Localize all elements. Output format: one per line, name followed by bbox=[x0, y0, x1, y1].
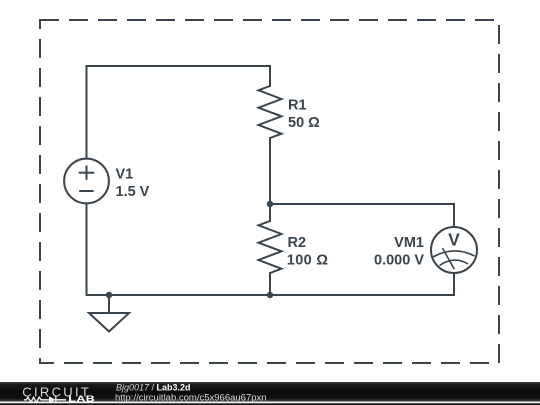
label R2 bbox=[287, 235, 329, 269]
resistor R1 bbox=[259, 86, 282, 138]
svg-text:LAB: LAB bbox=[68, 395, 95, 404]
logo diode triangle bbox=[49, 396, 56, 403]
dashed selection border bbox=[40, 20, 499, 363]
wire mid horizontal bbox=[270, 203, 454, 205]
footer white separator bbox=[0, 402, 540, 404]
wire R1 bottom lead bbox=[269, 138, 271, 204]
resistor R2 bbox=[259, 221, 282, 273]
logo resistor-diode line bbox=[24, 396, 66, 403]
svg-text:Bjg0017 / Lab3.2d: Bjg0017 / Lab3.2d bbox=[116, 383, 191, 393]
node junction dot R2 bottom bbox=[267, 292, 273, 298]
wire R2 top lead bbox=[269, 204, 271, 221]
svg-text:50 Ω: 50 Ω bbox=[288, 115, 320, 131]
logo CIRCUIT text bbox=[22, 384, 91, 399]
wire ground stub bbox=[108, 295, 110, 313]
svg-text:100 Ω: 100 Ω bbox=[287, 253, 329, 269]
svg-text:R1: R1 bbox=[288, 97, 307, 113]
svg-text:R2: R2 bbox=[288, 235, 307, 251]
voltage source V1 bbox=[64, 159, 109, 204]
node junction dot ground bbox=[106, 292, 112, 298]
wire V1 top lead bbox=[86, 66, 88, 159]
label VM1 bbox=[374, 235, 424, 269]
footer title line bbox=[116, 383, 191, 393]
wire V1 bottom lead bbox=[86, 204, 88, 296]
label V1 bbox=[116, 167, 150, 201]
wire bottom horizontal bbox=[87, 294, 455, 296]
svg-text:0.000 V: 0.000 V bbox=[374, 253, 424, 269]
svg-text:V: V bbox=[448, 229, 460, 249]
ground bbox=[89, 313, 129, 332]
svg-text:V1: V1 bbox=[116, 167, 134, 183]
wire R2 bottom lead bbox=[269, 273, 271, 295]
svg-text:VM1: VM1 bbox=[394, 235, 424, 251]
node junction dot R1/R2/VM1 bbox=[267, 201, 273, 207]
wire top horizontal bbox=[87, 65, 271, 67]
voltmeter VM1 bbox=[431, 227, 477, 273]
wire VM1 top lead bbox=[453, 204, 455, 228]
footer bottom edge bbox=[0, 403, 540, 405]
wire R1 top lead bbox=[269, 66, 271, 86]
logo LAB text bbox=[68, 395, 95, 404]
label R1 bbox=[288, 97, 320, 131]
wire VM1 bottom lead bbox=[453, 273, 455, 296]
svg-text:http://circuitlab.com/c5x966au: http://circuitlab.com/c5x966au67pxn bbox=[115, 392, 267, 403]
svg-text:1.5 V: 1.5 V bbox=[116, 184, 150, 200]
footer url line bbox=[115, 392, 267, 403]
